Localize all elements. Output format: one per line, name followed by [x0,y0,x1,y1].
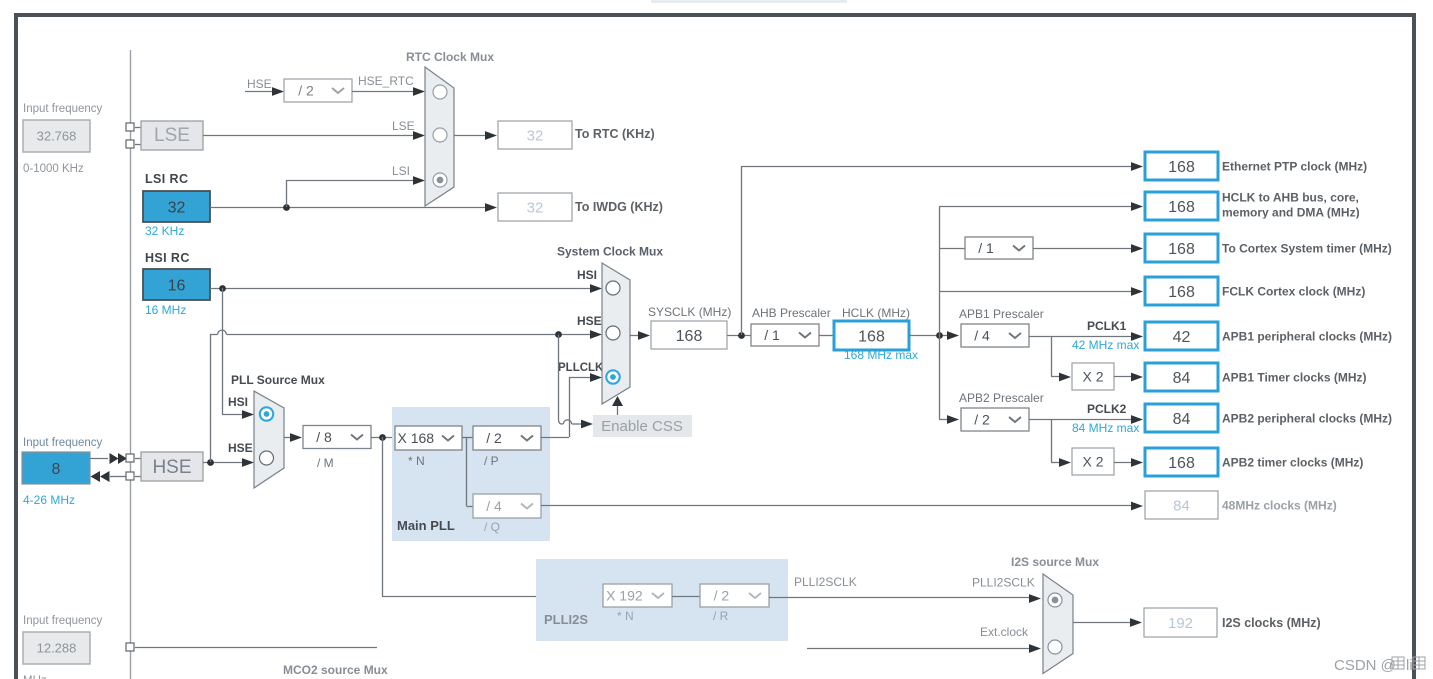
svg-text:X 2: X 2 [1082,369,1103,385]
output box HCLK to AHB bus, core, value 168 [1145,192,1218,220]
wire HSE stub into RTC divider [245,91,273,93]
wire HSE to system clock mux with hop over HSI branch [210,334,218,336]
LSE input frequency box 32.768 [23,120,90,152]
wire HCLK bus vertical distribution [939,206,941,419]
svg-text:32.768: 32.768 [37,129,77,144]
svg-text:PLLCLK: PLLCLK [558,362,604,374]
svg-text:X 192: X 192 [606,588,643,604]
svg-text:/ 8: / 8 [316,429,332,445]
svg-text:APB1 Timer clocks (MHz): APB1 Timer clocks (MHz) [1222,370,1367,384]
svg-text:MHz: MHz [23,675,47,679]
multiplier box X2 (APB1 timers) [1072,363,1114,390]
svg-text:4-26 MHz: 4-26 MHz [23,493,75,507]
wire N to R (PLLI2S) [672,596,700,598]
multiplier dropdown PLLI2S *N value X 192 (inactive) [603,584,672,607]
wire branch to APB1 timer multiplier [1051,336,1053,377]
svg-text:/ 2: / 2 [486,430,502,446]
wire I2S mux output [1073,622,1131,624]
svg-text:I2S clocks (MHz): I2S clocks (MHz) [1222,616,1321,630]
RTC mux radio HSE_RTC [433,85,447,99]
divider dropdown /Q value /4 (inactive) [473,494,541,518]
multiplier dropdown *N value X 168 [395,426,462,450]
multiplier box X2 (APB2 timers) [1072,448,1114,475]
wire PLL input down to PLLI2S [382,437,384,596]
svg-text:168: 168 [1168,241,1195,258]
output box Ethernet PTP clock (MHz) value 168 [1145,152,1218,180]
svg-text:HSE: HSE [152,457,191,478]
Enable CSS button [593,415,692,437]
wire HCLK output [909,335,949,337]
HSE port squares on MCU boundary [135,458,141,460]
wire HSI branch down to PLL source mux [222,288,224,414]
svg-text:HCLK (MHz): HCLK (MHz) [842,306,910,320]
output box I2S clocks value 192 [1144,608,1217,637]
svg-text:LSI RC: LSI RC [145,172,188,186]
svg-text:System Clock Mux: System Clock Mux [557,245,663,259]
wire branch to APB2 prescaler [939,419,949,421]
wire SYSCLK output [630,335,640,337]
svg-text:Ext.clock: Ext.clock [980,625,1029,639]
svg-text:AHB Prescaler: AHB Prescaler [752,306,831,320]
svg-text:Input frequency: Input frequency [23,615,103,627]
svg-text:APB1 peripheral clocks (MHz): APB1 peripheral clocks (MHz) [1222,329,1392,343]
HSE crystal in arrows [90,458,108,460]
wire branch to APB2 timer multiplier [1051,419,1053,462]
wire cortex prescaler to output [1033,248,1132,250]
MCO2 port square [126,643,134,651]
wire to FCLK output [939,291,1132,293]
wire LSE to RTC mux [203,135,415,137]
wire X2 to APB1 timer output [1114,376,1132,378]
svg-text:PCLK2: PCLK2 [1087,402,1127,416]
PLL mux radio HSE [260,451,274,465]
svg-text:APB2 timer clocks (MHz): APB2 timer clocks (MHz) [1222,455,1363,469]
svg-text:/ P: / P [484,454,499,468]
svg-text:Input frequency: Input frequency [23,437,103,449]
svg-text:168: 168 [1168,199,1195,216]
svg-text:0-1000 KHz: 0-1000 KHz [23,163,84,175]
output box To IWDG value 32 [498,193,572,221]
divider dropdown /M value /8 [303,426,371,449]
wire SYSCLK to AHB prescaler [727,335,751,337]
svg-text:/ R: / R [713,609,729,623]
wire APB1 prescaler output PCLK1 [1029,336,1132,338]
HSE input frequency box value 8 [22,452,90,484]
svg-text:HSI RC: HSI RC [145,251,190,265]
PLL Source Mux body [254,391,284,488]
wire PLLCLK from /P up to system clock mux [541,437,569,439]
svg-text:168: 168 [1168,455,1195,472]
svg-text:HSI: HSI [577,268,597,282]
wire CSS branch from HSE node down to Enable CSS [559,335,564,425]
svg-text:LSE: LSE [392,119,415,133]
RTC Clock Mux body [425,67,454,206]
wire PLLI2SCLK to I2S mux [769,597,1031,599]
svg-text:Input frequency: Input frequency [23,103,103,115]
prescaler dropdown AHB /1 [751,324,819,346]
svg-text:LSE: LSE [154,125,190,146]
HCLK value box 168 [834,321,909,350]
wire APB2 prescaler output PCLK2 [1029,419,1132,421]
wire MCO2 trace [135,647,377,649]
LSE port squares on MCU boundary [135,127,141,129]
wire to HCLK AHB output [939,206,1132,208]
svg-text:32: 32 [527,127,544,144]
svg-text:/ 1: / 1 [978,240,994,256]
wire AHB to HCLK box [819,335,834,337]
Main PLL panel [392,407,550,541]
RTC mux radio LSI (selected) [433,173,447,187]
svg-text:/ 2: / 2 [298,83,314,99]
divider dropdown /P value /2 [473,426,541,450]
wire up to Ethernet PTP output [741,166,743,335]
svg-text:84: 84 [1173,411,1191,428]
oscillator block LSI RC value 32 [143,191,210,222]
svg-text:HSE_RTC: HSE_RTC [358,74,414,88]
output box APB1 peripheral clocks (MHz) value 42 [1145,322,1218,350]
svg-text:HSE: HSE [228,441,253,455]
prescaler dropdown APB1 /4 [961,324,1029,347]
divider dropdown /2 (HSE RTC) [284,79,352,102]
svg-text:42 MHz max: 42 MHz max [1072,338,1139,352]
svg-text:168: 168 [1168,284,1195,301]
svg-text:HCLK to AHB bus, core,: HCLK to AHB bus, core, [1222,191,1359,205]
wire PLL mux output to /M divider [284,437,292,439]
svg-text:I2S source Mux: I2S source Mux [1011,555,1099,569]
wire HSE branch up to system clock mux [210,334,212,462]
system mux radio PLLCLK (selected) [606,370,619,383]
wire branch to cortex prescaler [939,248,965,250]
svg-text:16: 16 [168,277,186,294]
wire X2 to APB2 timer output [1114,462,1132,464]
I2S mux radio PLLI2SCLK (selected) [1048,593,1062,607]
svg-text:HSE: HSE [577,314,602,328]
svg-text:48MHz clocks (MHz): 48MHz clocks (MHz) [1222,498,1337,512]
wire LSI branch up to RTC mux [286,180,288,207]
svg-text:16 MHz: 16 MHz [145,303,186,317]
svg-text:168: 168 [676,328,703,345]
svg-text:li: li [1406,657,1413,674]
svg-text:X 2: X 2 [1082,454,1103,470]
svg-text:LSI: LSI [392,164,410,178]
wire RTC mux output [454,135,487,137]
svg-text:APB2 Prescaler: APB2 Prescaler [959,391,1044,405]
PLL mux radio HSI (selected) [260,407,273,420]
output box To Cortex System timer (MHz) value 168 [1145,234,1218,262]
RTC mux radio LSE [433,128,447,142]
svg-text:168: 168 [858,328,885,345]
svg-text:RTC Clock Mux: RTC Clock Mux [406,50,494,64]
oscillator block LSE [141,121,203,150]
svg-text:To IWDG (KHz): To IWDG (KHz) [575,200,663,214]
prescaler dropdown Cortex /1 [965,237,1033,259]
svg-text:84: 84 [1173,497,1190,514]
svg-text:* N: * N [617,609,634,623]
wire HSI output to system clock mux [210,288,591,290]
svg-text:/ 4: / 4 [974,328,990,344]
svg-text:84 MHz max: 84 MHz max [1072,421,1139,435]
svg-text:SYSCLK (MHz): SYSCLK (MHz) [648,305,731,319]
svg-text:/ 2: / 2 [714,588,730,604]
svg-text:To Cortex System timer (MHz): To Cortex System timer (MHz) [1222,241,1392,255]
svg-text:/ 2: / 2 [974,412,990,428]
svg-text:/ Q: / Q [484,520,500,534]
divider dropdown /R value /2 (inactive) [700,584,769,607]
svg-text:168 MHz max: 168 MHz max [844,348,918,362]
svg-text:/ 1: / 1 [764,327,780,343]
wire HSE output to PLL source mux [203,462,244,464]
svg-text:To RTC (KHz): To RTC (KHz) [575,127,655,141]
svg-text:PCLK1: PCLK1 [1087,319,1127,333]
output box APB2 peripheral clocks (MHz) value 84 [1145,404,1218,432]
svg-text:PLLI2S: PLLI2S [544,612,588,627]
svg-text:PLLI2SCLK: PLLI2SCLK [794,575,857,589]
system mux radio HSI [606,281,620,295]
svg-text:memory and DMA (MHz): memory and DMA (MHz) [1222,206,1360,220]
svg-text:/ M: / M [317,456,334,470]
svg-text:168: 168 [1168,159,1195,176]
SYSCLK value box 168 [651,321,727,349]
MCO2 input frequency box 12.288 [23,632,90,664]
prescaler dropdown APB2 /2 [961,408,1029,431]
wire /Q output to 48MHz clocks [541,505,1132,507]
wire Ext.clock into I2S mux [807,648,1031,650]
output box To RTC value 32 [498,121,572,149]
oscillator block HSI RC value 16 [143,269,210,300]
svg-text:MCO2 source Mux: MCO2 source Mux [283,663,388,677]
MCU boundary line [130,50,132,679]
svg-text:HSI: HSI [228,395,248,409]
svg-text:84: 84 [1173,370,1191,387]
svg-text:APB2 peripheral clocks (MHz): APB2 peripheral clocks (MHz) [1222,411,1392,425]
output box APB1 Timer clocks (MHz) value 84 [1145,363,1218,391]
System Clock Mux body [602,263,630,404]
svg-text:/ 4: / 4 [486,498,502,514]
svg-text:8: 8 [52,461,61,478]
wire branch N output down to /Q [466,437,468,506]
svg-text:HSE: HSE [247,77,272,91]
svg-text:APB1 Prescaler: APB1 Prescaler [959,307,1044,321]
svg-text:192: 192 [1168,615,1193,632]
svg-text:32: 32 [527,199,544,216]
svg-text:Enable CSS: Enable CSS [601,418,683,435]
system mux radio HSE [606,326,620,340]
svg-text:PLLI2SCLK: PLLI2SCLK [972,576,1035,590]
HSE crystal out arrows [110,476,126,478]
wire LSI output to IWDG [210,207,487,209]
tab bar sliver (top of clock-configuration tab) [651,0,847,3]
svg-text:X 168: X 168 [397,430,434,446]
svg-text:42: 42 [1173,329,1191,346]
svg-text:PLL Source Mux: PLL Source Mux [231,373,325,387]
svg-text:Ethernet PTP clock (MHz): Ethernet PTP clock (MHz) [1222,159,1367,173]
oscillator block HSE [141,452,203,481]
output box FCLK Cortex clock (MHz) value 168 [1145,277,1218,305]
wire CSS up into system clock mux [617,399,619,415]
svg-text:32: 32 [168,199,186,216]
PLLI2S panel [536,559,788,641]
I2S mux radio Ext.clock [1048,640,1062,654]
wire /M output to main PLL [371,437,395,439]
I2S source Mux body [1043,574,1073,674]
output box APB2 timer clocks (MHz) value 168 [1145,448,1218,476]
wire N to P [462,437,473,439]
svg-text:32 KHz: 32 KHz [145,224,184,238]
svg-text:CSDN @: CSDN @ [1334,657,1396,674]
svg-text:Main PLL: Main PLL [397,518,455,533]
svg-text:12.288: 12.288 [37,641,77,656]
svg-text:* N: * N [408,454,425,468]
output box 48MHz clocks (MHz) value 84 [1145,491,1218,519]
wire HSE_RTC to RTC mux [352,91,415,93]
svg-text:FCLK Cortex clock (MHz): FCLK Cortex clock (MHz) [1222,284,1365,298]
